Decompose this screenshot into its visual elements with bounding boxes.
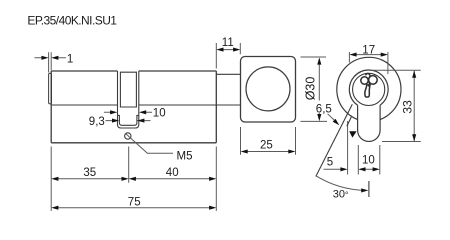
svg-text:30°: 30° xyxy=(333,189,349,201)
euro profile inner circle xyxy=(353,73,385,105)
left end cap xyxy=(49,73,52,104)
dimension 1 (cap protrusion) xyxy=(35,52,66,72)
clip slot (middle recess) xyxy=(118,71,139,128)
euro profile outer circle xyxy=(349,70,388,105)
dimension 17 (profile width) xyxy=(349,52,388,74)
svg-text:35: 35 xyxy=(83,167,96,179)
thumbturn knob xyxy=(241,57,296,123)
dimension 5 xyxy=(324,121,348,175)
dimension 10 (stem width) xyxy=(358,145,380,175)
svg-text:11: 11 xyxy=(222,37,234,49)
svg-text:10: 10 xyxy=(153,107,166,119)
30 degree rotation line xyxy=(316,104,353,176)
cylinder body outline xyxy=(51,71,216,143)
svg-text:Ø30: Ø30 xyxy=(304,77,318,101)
svg-text:40: 40 xyxy=(166,167,179,179)
leader 6,5 xyxy=(328,114,336,122)
dimension 9,3 (slot inner width) xyxy=(106,120,151,122)
front view outer circle xyxy=(337,57,401,121)
dimension 25 (knob depth) xyxy=(241,127,296,155)
30 degree arc xyxy=(316,176,367,191)
M5 screw hole xyxy=(125,133,131,139)
svg-text:33: 33 xyxy=(401,100,415,114)
profile stem xyxy=(358,105,381,141)
angle reference tick xyxy=(368,181,370,197)
svg-text:17: 17 xyxy=(362,44,375,56)
svg-text:9,3: 9,3 xyxy=(89,116,105,128)
svg-text:EP.35/40K.NI.SU1: EP.35/40K.NI.SU1 xyxy=(27,13,117,27)
dimension 75 xyxy=(58,207,211,209)
svg-text:M5: M5 xyxy=(177,150,193,162)
svg-text:75: 75 xyxy=(128,197,141,209)
keyway xyxy=(361,76,377,97)
dimension 11 (neck length) xyxy=(216,43,240,69)
rotated stem edge line xyxy=(347,116,352,126)
svg-text:1: 1 xyxy=(67,53,73,65)
svg-text:6,5: 6,5 xyxy=(316,104,332,116)
pointer arrow on rotated stem xyxy=(349,131,356,137)
knob circle xyxy=(246,67,290,111)
svg-text:5: 5 xyxy=(327,157,333,169)
M5 leader line xyxy=(125,133,173,153)
dimension 35 / 40 xyxy=(51,147,216,211)
svg-text:25: 25 xyxy=(260,139,273,151)
dimension 10 (slot width) xyxy=(104,111,152,113)
neck top edge xyxy=(216,73,240,75)
barrel midline xyxy=(51,104,240,106)
dimension O30 (knob diameter) xyxy=(301,57,328,121)
dimension 33 (profile height) xyxy=(372,70,421,141)
svg-text:10: 10 xyxy=(362,154,375,166)
